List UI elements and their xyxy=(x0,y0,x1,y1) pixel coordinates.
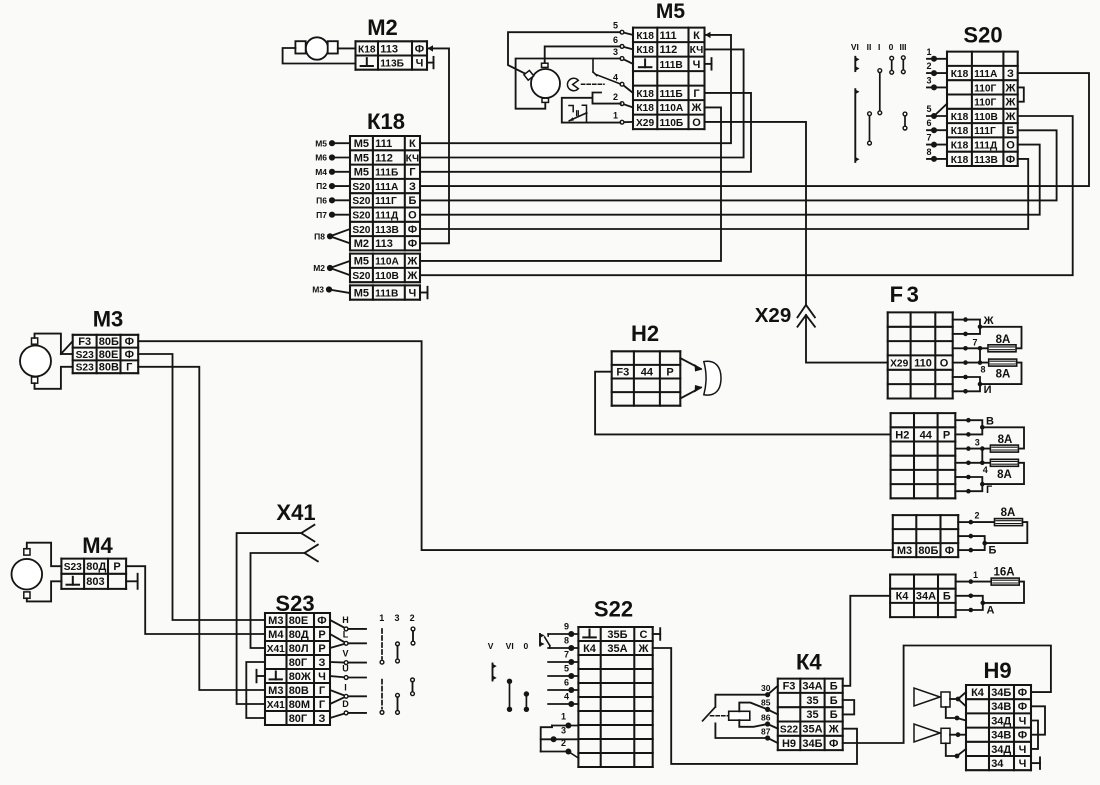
svg-text:П6: П6 xyxy=(316,196,327,206)
svg-text:1: 1 xyxy=(613,111,618,121)
svg-text:VI: VI xyxy=(506,641,514,651)
svg-text:1: 1 xyxy=(926,47,931,57)
svg-text:Ж: Ж xyxy=(1005,97,1016,109)
svg-text:L: L xyxy=(343,629,349,639)
svg-text:К18: К18 xyxy=(951,126,969,137)
svg-text:Ж: Ж xyxy=(983,315,994,327)
svg-text:Ф: Ф xyxy=(1018,730,1027,742)
svg-text:Ж: Ж xyxy=(1005,82,1016,94)
svg-text:113: 113 xyxy=(380,43,398,55)
svg-text:Х29: Х29 xyxy=(636,118,654,129)
svg-text:Х41: Х41 xyxy=(276,500,315,525)
svg-text:34Б: 34Б xyxy=(991,687,1011,699)
svg-text:К18: К18 xyxy=(951,141,969,152)
svg-text:З: З xyxy=(409,181,416,193)
svg-text:М5: М5 xyxy=(354,287,369,299)
svg-text:F3: F3 xyxy=(616,367,629,379)
svg-text:110Г: 110Г xyxy=(974,83,996,94)
svg-text:Б: Б xyxy=(830,695,838,707)
svg-text:8А: 8А xyxy=(998,434,1013,446)
svg-text:К18: К18 xyxy=(358,44,376,55)
svg-text:34В: 34В xyxy=(991,730,1011,742)
svg-text:80Г: 80Г xyxy=(289,713,308,725)
svg-text:110Г: 110Г xyxy=(974,98,996,109)
svg-text:Р: Р xyxy=(318,629,325,641)
svg-text:87: 87 xyxy=(761,727,771,737)
svg-text:5: 5 xyxy=(613,21,618,31)
svg-text:2: 2 xyxy=(613,92,618,102)
svg-text:Р: Р xyxy=(318,643,325,655)
svg-text:4: 4 xyxy=(564,692,569,702)
svg-text:5: 5 xyxy=(926,104,931,114)
svg-text:7: 7 xyxy=(564,650,569,660)
svg-text:1: 1 xyxy=(973,570,978,580)
svg-text:7: 7 xyxy=(926,133,931,143)
svg-text:3: 3 xyxy=(926,75,931,85)
svg-text:111В: 111В xyxy=(660,60,683,71)
svg-text:VI: VI xyxy=(851,42,859,52)
svg-text:80Е: 80Е xyxy=(289,615,309,627)
svg-text:Г: Г xyxy=(409,167,416,179)
svg-text:Н2: Н2 xyxy=(895,429,909,441)
svg-text:Ф: Ф xyxy=(945,545,954,557)
svg-text:111Б: 111Б xyxy=(660,89,683,100)
svg-text:110В: 110В xyxy=(375,271,399,282)
svg-text:110В: 110В xyxy=(974,112,998,123)
svg-text:S20: S20 xyxy=(352,196,370,207)
svg-text:3: 3 xyxy=(394,613,399,623)
svg-text:110А: 110А xyxy=(375,257,399,268)
svg-text:110А: 110А xyxy=(660,103,684,114)
svg-text:D: D xyxy=(342,699,349,709)
svg-text:Ж: Ж xyxy=(691,102,702,114)
svg-text:V: V xyxy=(342,649,348,659)
svg-text:80Е: 80Е xyxy=(99,349,119,361)
svg-text:Б: Б xyxy=(830,709,838,721)
svg-text:Ф: Ф xyxy=(1006,154,1015,166)
svg-text:7: 7 xyxy=(972,337,977,347)
svg-text:З: З xyxy=(319,713,326,725)
svg-text:Р: Р xyxy=(666,367,673,379)
svg-text:44: 44 xyxy=(920,429,933,441)
svg-text:Х41: Х41 xyxy=(267,644,285,655)
svg-text:М4: М4 xyxy=(268,629,284,641)
svg-text:К18: К18 xyxy=(636,31,654,42)
svg-text:113Б: 113Б xyxy=(380,59,404,70)
svg-text:34: 34 xyxy=(991,758,1004,770)
svg-text:К4: К4 xyxy=(583,643,597,655)
svg-text:F3: F3 xyxy=(890,282,923,307)
svg-text:803: 803 xyxy=(86,576,104,588)
svg-text:3: 3 xyxy=(561,726,566,736)
svg-text:80Г: 80Г xyxy=(289,657,308,669)
svg-text:U: U xyxy=(342,664,349,674)
svg-text:4: 4 xyxy=(983,465,988,475)
svg-text:М2: М2 xyxy=(313,263,325,273)
svg-text:111: 111 xyxy=(375,138,392,150)
svg-text:II: II xyxy=(867,42,872,52)
svg-text:S20: S20 xyxy=(352,211,370,222)
svg-text:I: I xyxy=(344,682,347,692)
svg-text:III: III xyxy=(899,42,906,52)
svg-text:Ф: Ф xyxy=(125,336,134,348)
svg-text:М5: М5 xyxy=(315,138,327,148)
svg-text:3: 3 xyxy=(613,47,618,57)
svg-text:2: 2 xyxy=(926,61,931,71)
svg-text:Х29: Х29 xyxy=(890,359,908,370)
svg-text:Ф: Ф xyxy=(415,43,424,55)
svg-text:34А: 34А xyxy=(802,681,822,693)
svg-text:112: 112 xyxy=(660,44,678,56)
svg-text:5: 5 xyxy=(564,664,569,674)
svg-text:110: 110 xyxy=(914,358,932,370)
svg-text:С: С xyxy=(640,629,648,641)
svg-text:6: 6 xyxy=(564,678,569,688)
svg-text:Ч: Ч xyxy=(409,287,417,299)
svg-text:1: 1 xyxy=(379,613,384,623)
svg-text:Ф: Ф xyxy=(829,738,838,750)
svg-text:Б: Б xyxy=(1007,125,1015,137)
svg-text:Ж: Ж xyxy=(406,270,417,282)
svg-text:30: 30 xyxy=(761,683,771,693)
svg-text:КЧ: КЧ xyxy=(406,153,420,164)
svg-text:8А: 8А xyxy=(1001,507,1016,519)
svg-text:H: H xyxy=(342,615,349,625)
svg-text:К18: К18 xyxy=(636,103,654,114)
svg-text:М3: М3 xyxy=(268,615,283,627)
svg-text:34А: 34А xyxy=(916,591,936,603)
svg-text:М3: М3 xyxy=(268,685,283,697)
svg-text:Ч: Ч xyxy=(1019,744,1027,756)
svg-text:34Д: 34Д xyxy=(991,744,1011,756)
svg-text:М5: М5 xyxy=(354,138,369,150)
svg-text:111Б: 111Б xyxy=(375,168,398,179)
svg-text:К18: К18 xyxy=(951,155,969,166)
svg-text:34В: 34В xyxy=(991,701,1011,713)
svg-text:М3: М3 xyxy=(312,285,324,295)
svg-text:О: О xyxy=(940,358,949,370)
svg-text:8: 8 xyxy=(564,636,569,646)
svg-text:S22: S22 xyxy=(594,597,633,622)
svg-text:F3: F3 xyxy=(783,681,796,693)
svg-text:80Д: 80Д xyxy=(289,629,309,641)
svg-text:I: I xyxy=(878,42,880,52)
svg-text:Ч: Ч xyxy=(693,59,701,71)
svg-text:К18: К18 xyxy=(636,45,654,56)
svg-text:Ж: Ж xyxy=(406,256,417,268)
svg-text:М2: М2 xyxy=(367,15,398,40)
svg-text:Г: Г xyxy=(693,88,700,100)
svg-text:8: 8 xyxy=(926,147,931,157)
svg-text:35: 35 xyxy=(806,709,818,721)
svg-text:1: 1 xyxy=(561,712,566,722)
svg-text:80М: 80М xyxy=(289,699,310,711)
svg-text:Б: Б xyxy=(830,681,838,693)
svg-text:6: 6 xyxy=(613,35,618,45)
svg-text:80Л: 80Л xyxy=(289,643,309,655)
svg-text:8А: 8А xyxy=(996,369,1011,381)
svg-text:34Б: 34Б xyxy=(802,738,822,750)
svg-text:К: К xyxy=(409,138,416,150)
svg-text:О: О xyxy=(692,117,701,129)
svg-text:110Б: 110Б xyxy=(660,118,684,129)
svg-text:К4: К4 xyxy=(896,591,910,603)
svg-text:Н9: Н9 xyxy=(782,738,796,750)
svg-text:6: 6 xyxy=(926,118,931,128)
svg-text:2: 2 xyxy=(410,613,415,623)
svg-text:Ф: Ф xyxy=(1018,701,1027,713)
svg-text:К: К xyxy=(693,30,700,42)
svg-text:О: О xyxy=(1006,140,1015,152)
svg-text:V: V xyxy=(488,641,494,651)
svg-text:111А: 111А xyxy=(375,182,399,193)
svg-text:9: 9 xyxy=(564,622,569,632)
svg-text:2: 2 xyxy=(561,738,566,748)
svg-text:2: 2 xyxy=(974,511,979,521)
svg-text:Р: Р xyxy=(113,561,120,573)
svg-text:З: З xyxy=(1007,68,1014,80)
svg-text:S23: S23 xyxy=(64,562,82,573)
svg-text:П8: П8 xyxy=(314,232,325,242)
svg-text:О: О xyxy=(408,210,417,222)
svg-text:А: А xyxy=(987,604,995,616)
svg-text:Г: Г xyxy=(319,699,326,711)
svg-text:Ч: Ч xyxy=(416,58,424,70)
svg-text:Ж: Ж xyxy=(828,724,839,736)
svg-text:111Г: 111Г xyxy=(974,126,996,137)
svg-text:К18: К18 xyxy=(636,89,654,100)
svg-text:Б: Б xyxy=(943,591,951,603)
svg-text:Ф: Ф xyxy=(317,615,326,627)
svg-text:К4: К4 xyxy=(971,687,985,699)
svg-text:М5: М5 xyxy=(354,167,369,179)
svg-text:М3: М3 xyxy=(93,307,124,332)
svg-text:М5: М5 xyxy=(354,152,369,164)
svg-text:Ч: Ч xyxy=(1019,758,1027,770)
svg-text:Н2: Н2 xyxy=(631,321,659,346)
svg-text:8А: 8А xyxy=(997,469,1012,481)
svg-text:80В: 80В xyxy=(99,362,119,374)
svg-text:Г: Г xyxy=(986,484,993,496)
svg-text:Ф: Ф xyxy=(408,224,417,236)
svg-text:К18: К18 xyxy=(951,112,969,123)
svg-text:П2: П2 xyxy=(316,181,327,191)
svg-text:М5: М5 xyxy=(656,0,685,23)
svg-text:S23: S23 xyxy=(76,363,94,374)
svg-text:Б: Б xyxy=(408,195,416,207)
svg-text:111Д: 111Д xyxy=(974,141,998,152)
svg-text:80Б: 80Б xyxy=(99,336,119,348)
svg-text:35Б: 35Б xyxy=(607,629,627,641)
svg-text:S23: S23 xyxy=(76,350,94,361)
svg-text:Н9: Н9 xyxy=(983,658,1011,683)
svg-text:S23: S23 xyxy=(275,591,314,616)
svg-text:П7: П7 xyxy=(316,210,327,220)
svg-text:S20: S20 xyxy=(352,182,370,193)
svg-text:Г: Г xyxy=(319,685,326,697)
svg-text:80Д: 80Д xyxy=(86,561,106,573)
svg-text:Ф: Ф xyxy=(1018,687,1027,699)
svg-text:111А: 111А xyxy=(974,69,998,80)
svg-text:В: В xyxy=(986,415,994,427)
svg-text:8: 8 xyxy=(981,365,986,375)
svg-text:Р: Р xyxy=(943,429,950,441)
svg-text:S20: S20 xyxy=(352,225,370,236)
svg-text:М5: М5 xyxy=(354,256,369,268)
svg-text:111Д: 111Д xyxy=(375,211,399,222)
svg-text:З: З xyxy=(319,657,326,669)
svg-text:К4: К4 xyxy=(796,650,822,675)
svg-text:Б: Б xyxy=(989,545,997,557)
svg-text:35: 35 xyxy=(806,695,818,707)
svg-text:S20: S20 xyxy=(352,271,370,282)
svg-text:35А: 35А xyxy=(802,724,822,736)
svg-text:М4: М4 xyxy=(82,533,113,558)
svg-text:80Ж: 80Ж xyxy=(289,671,311,683)
svg-text:111: 111 xyxy=(660,30,677,42)
svg-text:КЧ: КЧ xyxy=(690,45,704,56)
svg-text:34Д: 34Д xyxy=(991,715,1011,727)
svg-text:Х29: Х29 xyxy=(755,304,791,327)
svg-text:111В: 111В xyxy=(375,288,398,299)
svg-text:80Б: 80Б xyxy=(918,545,938,557)
svg-text:113В: 113В xyxy=(974,155,998,166)
svg-text:И: И xyxy=(984,384,992,396)
svg-text:Ф: Ф xyxy=(125,349,134,361)
svg-text:К18: К18 xyxy=(367,109,405,134)
svg-text:85: 85 xyxy=(761,698,771,708)
svg-text:112: 112 xyxy=(375,152,393,164)
svg-text:8А: 8А xyxy=(996,334,1011,346)
svg-text:М6: М6 xyxy=(315,153,327,163)
svg-text:Ч: Ч xyxy=(1019,715,1027,727)
svg-text:F3: F3 xyxy=(78,336,91,348)
svg-text:35А: 35А xyxy=(607,643,627,655)
svg-text:S20: S20 xyxy=(963,23,1002,48)
svg-text:Ж: Ж xyxy=(1005,111,1016,123)
svg-text:К18: К18 xyxy=(951,69,969,80)
svg-text:Г: Г xyxy=(126,362,133,374)
svg-text:113В: 113В xyxy=(375,225,399,236)
svg-text:Ч: Ч xyxy=(318,671,326,683)
svg-text:80В: 80В xyxy=(289,685,309,697)
svg-text:Х41: Х41 xyxy=(267,700,285,711)
svg-text:3: 3 xyxy=(975,438,980,448)
svg-text:S22: S22 xyxy=(780,725,798,736)
svg-text:Ф: Ф xyxy=(408,238,417,250)
svg-text:Ж: Ж xyxy=(638,643,649,655)
svg-text:111Г: 111Г xyxy=(375,196,397,207)
svg-text:М2: М2 xyxy=(354,238,369,250)
svg-text:0: 0 xyxy=(524,641,529,651)
svg-text:86: 86 xyxy=(761,713,771,723)
svg-text:0: 0 xyxy=(889,42,894,52)
svg-text:16А: 16А xyxy=(993,567,1014,579)
svg-text:М3: М3 xyxy=(897,545,912,557)
svg-text:М4: М4 xyxy=(315,167,327,177)
svg-text:113: 113 xyxy=(375,238,393,250)
svg-text:44: 44 xyxy=(641,367,654,379)
